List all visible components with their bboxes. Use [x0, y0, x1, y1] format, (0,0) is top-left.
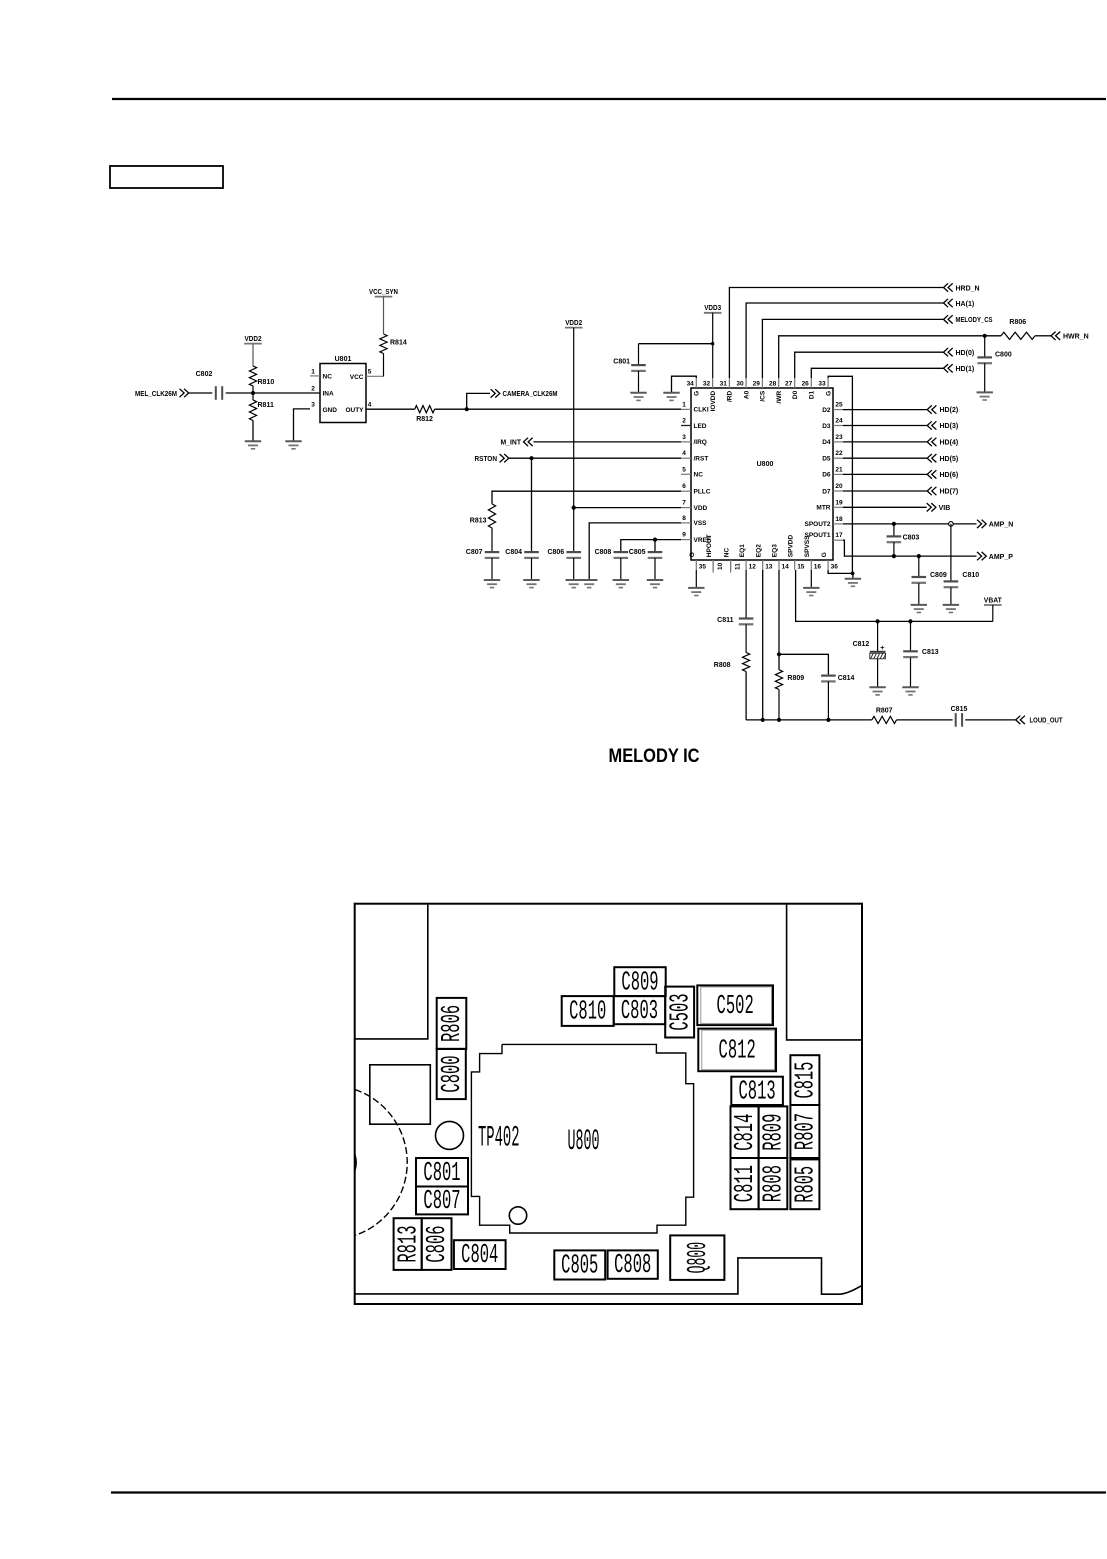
capacitor C800: [977, 336, 1011, 392]
svg-text:R807: R807: [876, 707, 893, 714]
ground: [977, 392, 993, 400]
net HD(5): [843, 454, 958, 463]
svg-text:6: 6: [682, 483, 686, 490]
svg-text:EQ1: EQ1: [739, 544, 746, 557]
svg-text:SPOUT2: SPOUT2: [804, 521, 830, 528]
svg-text:SPVDD: SPVDD: [787, 534, 794, 557]
svg-text:C800: C800: [438, 1055, 468, 1092]
svg-text:VIB: VIB: [939, 505, 951, 512]
svg-text:C813: C813: [922, 649, 939, 656]
wire pin33 G loop: [828, 376, 852, 573]
svg-text:MELODY IC: MELODY IC: [609, 745, 700, 767]
svg-text:C807: C807: [423, 1187, 460, 1217]
svg-text:RSTON: RSTON: [475, 456, 498, 463]
svg-text:13: 13: [765, 564, 773, 571]
melody IC U800: [691, 388, 833, 560]
svg-text:D0: D0: [792, 390, 799, 399]
svg-text:VBAT: VBAT: [984, 597, 1003, 604]
svg-text:VCC: VCC: [350, 374, 364, 381]
svg-text:R812: R812: [416, 416, 433, 423]
svg-text:LED: LED: [694, 423, 707, 430]
U800 right pins: [804, 402, 843, 541]
ground: [245, 441, 261, 449]
header box: [110, 166, 223, 188]
svg-text:15: 15: [797, 564, 805, 571]
wire SPVDD / VBAT rail: [796, 570, 993, 624]
svg-text:34: 34: [687, 380, 695, 387]
svg-text:C802: C802: [196, 371, 213, 378]
PCB layout frame: [355, 904, 862, 1304]
capacitor C809: [912, 556, 947, 604]
net MEL_CLK26M: [135, 389, 189, 398]
unlabeled pad: [370, 1065, 431, 1124]
svg-text:TP402: TP402: [478, 1121, 520, 1155]
wire RSTON to C804: [531, 458, 533, 552]
svg-text:14: 14: [782, 564, 790, 571]
svg-text:INA: INA: [323, 391, 335, 398]
svg-text:VDD2: VDD2: [245, 336, 262, 343]
net RSTON: [475, 454, 682, 463]
PCB part C801: [416, 1158, 468, 1189]
svg-text:D1: D1: [809, 390, 816, 399]
PCB part C807: [416, 1187, 468, 1218]
svg-text:/CS: /CS: [760, 390, 767, 402]
svg-text:3: 3: [311, 402, 315, 409]
capacitor C813: [903, 621, 939, 687]
PCB part C806: [422, 1218, 454, 1270]
test point circle: [436, 1121, 464, 1149]
svg-text:C803: C803: [621, 997, 658, 1027]
ground: [845, 579, 861, 587]
svg-text:7: 7: [682, 500, 686, 507]
svg-text:2: 2: [311, 385, 315, 392]
PCB part C810: [562, 996, 614, 1028]
PCB part C814: [731, 1106, 762, 1158]
PCB part Q800: [670, 1235, 724, 1280]
svg-text:26: 26: [802, 380, 810, 387]
svg-text:9: 9: [682, 532, 686, 539]
power flag VBAT: [984, 597, 1003, 621]
svg-text:4: 4: [682, 450, 686, 457]
wire VDD pin7: [572, 506, 681, 510]
svg-text:HD(2): HD(2): [940, 407, 959, 414]
svg-text:HD(4): HD(4): [940, 440, 959, 447]
net AMP_N: [843, 520, 1013, 529]
svg-text:C804: C804: [461, 1241, 498, 1271]
svg-text:HD(3): HD(3): [940, 423, 959, 430]
svg-text:MEL_CLK26M: MEL_CLK26M: [135, 391, 177, 398]
svg-text:D4: D4: [822, 439, 831, 446]
PCB board edge bottom: [355, 1258, 861, 1294]
wire: [897, 719, 953, 721]
svg-text:R808: R808: [760, 1165, 790, 1202]
capacitor C811: [717, 570, 753, 624]
capacitor C804: [505, 549, 539, 580]
svg-text:C806: C806: [423, 1225, 453, 1262]
ground: [613, 580, 629, 588]
svg-text:G: G: [821, 552, 828, 557]
wire VREF pin9: [621, 538, 681, 553]
svg-text:/IRQ: /IRQ: [694, 439, 707, 446]
resistor R812: [415, 406, 435, 423]
svg-text:19: 19: [835, 499, 843, 506]
wire: [745, 672, 747, 720]
svg-text:C809: C809: [930, 572, 947, 579]
wire pin13: [761, 570, 765, 722]
net AMP_P: [843, 540, 1013, 561]
svg-text:HD(7): HD(7): [940, 489, 959, 496]
net LOUD_OUT: [965, 716, 1063, 725]
svg-text:D3: D3: [822, 423, 831, 430]
svg-text:5: 5: [368, 369, 372, 376]
svg-text:HPOUT: HPOUT: [706, 534, 713, 557]
svg-text:R806: R806: [438, 1005, 468, 1042]
PCB part C503: [665, 987, 696, 1038]
svg-text:C811: C811: [717, 617, 733, 624]
svg-text:R807: R807: [792, 1113, 822, 1150]
resistor R806: [1001, 319, 1035, 340]
net HWR_N: [1035, 332, 1089, 341]
svg-text:25: 25: [835, 402, 843, 409]
svg-text:C812: C812: [719, 1037, 756, 1067]
capacitor C803: [887, 524, 920, 556]
svg-text:CAMERA_CLK26M: CAMERA_CLK26M: [503, 391, 558, 398]
capacitor C814: [779, 654, 855, 722]
U800 bottom pins: [689, 534, 838, 572]
svg-text:36: 36: [831, 564, 839, 571]
svg-text:20: 20: [835, 483, 843, 490]
wire pin34 to ground: [672, 376, 697, 392]
net MELODY_CS: [762, 315, 992, 378]
svg-text:GND: GND: [323, 407, 338, 414]
page bottom rule: [111, 1491, 1106, 1493]
ground: [943, 605, 959, 613]
svg-text:EQ2: EQ2: [755, 544, 762, 557]
PCB part C815: [790, 1055, 821, 1105]
capacitor C801: [613, 344, 646, 393]
svg-text:R810: R810: [258, 379, 275, 386]
resistor R813: [470, 504, 496, 552]
net VIB: [843, 503, 950, 512]
PCB part C800: [437, 1049, 468, 1099]
svg-text:VSS: VSS: [694, 520, 708, 527]
wire: [189, 392, 212, 394]
capacitor C808: [595, 549, 629, 580]
capacitor C806: [547, 549, 581, 580]
wire U801 GND: [294, 409, 311, 441]
svg-text:31: 31: [720, 380, 728, 387]
svg-text:C810: C810: [569, 998, 606, 1028]
svg-text:12: 12: [749, 564, 757, 571]
svg-text:D7: D7: [822, 488, 831, 495]
svg-text:HWR_N: HWR_N: [1063, 334, 1089, 341]
wire OUTY: [366, 408, 415, 410]
svg-text:NC: NC: [723, 548, 730, 558]
svg-text:NC: NC: [694, 472, 704, 479]
ground: [285, 441, 301, 449]
PCB small arc: [355, 1155, 356, 1171]
svg-text:R811: R811: [258, 402, 274, 409]
svg-text:R806: R806: [1009, 319, 1026, 326]
svg-text:R813: R813: [470, 518, 487, 525]
net HD(1): [811, 364, 974, 378]
svg-text:C808: C808: [595, 549, 612, 556]
svg-text:R813: R813: [394, 1225, 424, 1262]
svg-text:G: G: [689, 552, 696, 557]
wire: [226, 391, 320, 395]
PCB part C804: [454, 1240, 506, 1271]
svg-text:30: 30: [736, 380, 744, 387]
svg-text:C812: C812: [853, 641, 870, 648]
PCB part R809: [759, 1106, 790, 1158]
svg-text:R808: R808: [714, 662, 731, 669]
svg-text:C814: C814: [731, 1114, 761, 1151]
capacitor C805: [629, 549, 663, 580]
svg-text:28: 28: [769, 380, 777, 387]
svg-text:VCC_SYN: VCC_SYN: [369, 289, 398, 296]
wire VSS pin8: [589, 523, 681, 580]
svg-text:HRD_N: HRD_N: [956, 285, 980, 292]
svg-text:/WR: /WR: [776, 390, 783, 403]
ground pin16: [803, 570, 819, 596]
svg-text:IOVDD: IOVDD: [710, 391, 717, 412]
svg-text:C502: C502: [717, 992, 754, 1022]
PCB part C809: [614, 967, 665, 998]
PCB arc (speaker outline): [355, 1090, 407, 1236]
svg-text:HA(1): HA(1): [956, 301, 975, 308]
svg-text:2: 2: [682, 418, 686, 425]
PCB part C812: [698, 1029, 776, 1072]
wire pin14 EQ3: [777, 570, 781, 670]
svg-text:LOUD_OUT: LOUD_OUT: [1030, 718, 1064, 725]
power flag VCC_SYN: [369, 289, 398, 334]
svg-text:11: 11: [734, 563, 741, 570]
PCB part C813: [731, 1077, 783, 1108]
svg-text:HD(5): HD(5): [940, 456, 959, 463]
resistor R810: [249, 366, 274, 393]
svg-text:C811: C811: [731, 1165, 761, 1202]
ground pin35: [688, 570, 704, 596]
svg-text:D5: D5: [822, 456, 831, 463]
PCB inner region line right: [787, 904, 862, 1040]
svg-text:C805: C805: [561, 1252, 598, 1282]
svg-text:C804: C804: [505, 549, 522, 556]
svg-text:Q800: Q800: [684, 1242, 714, 1274]
net HA(1): [746, 299, 974, 378]
svg-text:24: 24: [835, 418, 843, 425]
svg-text:C800: C800: [995, 351, 1012, 358]
svg-text:VDD2: VDD2: [565, 320, 582, 327]
svg-text:16: 16: [814, 564, 822, 571]
svg-text:PLLC: PLLC: [694, 489, 711, 496]
svg-text:U800: U800: [757, 461, 774, 468]
PCB part R805: [790, 1159, 821, 1209]
svg-text:22: 22: [835, 450, 843, 457]
wire bottom rail: [746, 719, 872, 721]
resistor R814: [380, 334, 407, 376]
svg-text:U800: U800: [568, 1125, 600, 1159]
svg-text:C801: C801: [423, 1159, 460, 1189]
svg-text:M_INT: M_INT: [501, 440, 522, 447]
svg-text:AMP_N: AMP_N: [989, 522, 1014, 529]
svg-text:18: 18: [835, 516, 843, 523]
svg-text:1: 1: [311, 369, 315, 376]
svg-text:SPVSS: SPVSS: [804, 535, 811, 557]
power flag VDD2: [244, 336, 262, 366]
svg-text:17: 17: [835, 532, 843, 539]
svg-text:C805: C805: [629, 549, 646, 556]
PCB part R813: [394, 1218, 425, 1270]
svg-text:OUTY: OUTY: [345, 407, 364, 414]
wire to U800 CLKI: [435, 407, 681, 411]
capacitor C812 (polarized): [853, 621, 886, 687]
svg-text:10: 10: [717, 562, 724, 570]
wire C805 top: [654, 540, 656, 553]
svg-text:8: 8: [682, 515, 686, 522]
power flag VDD2: [565, 320, 583, 552]
svg-text:1: 1: [682, 401, 686, 408]
resistor R811: [249, 393, 274, 421]
via circle: [509, 1207, 526, 1224]
svg-text:27: 27: [785, 380, 793, 387]
svg-text:G: G: [825, 391, 832, 396]
net HD(4): [843, 438, 958, 447]
svg-text:HD(0): HD(0): [956, 350, 975, 357]
wire PLLC: [492, 491, 681, 504]
resistor R809: [775, 670, 804, 722]
net HWR_N wire: [779, 334, 1001, 378]
ground: [902, 687, 918, 695]
svg-text:C810: C810: [962, 572, 979, 579]
net HD(3): [843, 421, 958, 430]
svg-text:AMP_P: AMP_P: [989, 554, 1013, 561]
op-amp U801 (clock buffer): [310, 356, 384, 423]
resistor R807: [872, 707, 897, 723]
ground: [663, 393, 679, 401]
svg-text:/RD: /RD: [727, 391, 734, 403]
svg-text:C813: C813: [739, 1077, 776, 1107]
wire to C801: [639, 343, 713, 345]
PCB part R807: [790, 1105, 821, 1158]
svg-text:C807: C807: [466, 549, 483, 556]
net HD(2): [843, 405, 958, 414]
svg-text:D2: D2: [822, 407, 831, 414]
svg-text:R805: R805: [792, 1166, 822, 1203]
svg-text:/RST: /RST: [694, 456, 709, 463]
svg-text:C503: C503: [666, 993, 696, 1030]
svg-text:35: 35: [699, 564, 707, 571]
svg-text:R809: R809: [787, 675, 804, 682]
svg-text:C809: C809: [621, 968, 658, 998]
PCB part C811: [731, 1158, 762, 1209]
svg-text:R809: R809: [760, 1114, 790, 1151]
capacitor C815: [951, 706, 968, 727]
capacitor C810: [944, 524, 980, 605]
IC footprint U800 outline: [471, 1044, 693, 1233]
ground: [484, 580, 500, 588]
ground VSS: [581, 580, 597, 588]
ground: [523, 580, 539, 588]
svg-text:EQ3: EQ3: [772, 544, 779, 557]
U800 top pins: [687, 378, 833, 411]
svg-text:33: 33: [818, 380, 826, 387]
wire pin36 G: [828, 570, 854, 578]
net HD(7): [843, 487, 958, 496]
ground: [566, 580, 582, 588]
svg-text:C806: C806: [547, 549, 564, 556]
svg-text:HD(1): HD(1): [956, 366, 975, 373]
U800 left pins: [681, 401, 711, 544]
ground: [869, 687, 885, 695]
svg-text:U801: U801: [335, 356, 352, 363]
svg-text:R814: R814: [390, 340, 407, 347]
net HD(0): [795, 348, 974, 378]
page top rule: [112, 98, 1106, 100]
power flag VDD3: [704, 305, 722, 378]
net HD(6): [843, 470, 958, 479]
svg-text:4: 4: [368, 402, 372, 409]
svg-text:VDD: VDD: [694, 505, 708, 512]
svg-text:VDD3: VDD3: [704, 305, 721, 312]
svg-text:CLKI: CLKI: [694, 407, 709, 414]
resistor R808: [743, 624, 750, 671]
svg-text:29: 29: [753, 380, 761, 387]
PCB part C502: [697, 985, 773, 1025]
svg-text:5: 5: [682, 466, 686, 473]
svg-text:HD(6): HD(6): [940, 472, 959, 479]
net M_INT: [501, 438, 682, 447]
ground: [647, 580, 663, 588]
svg-text:NC: NC: [323, 374, 333, 381]
svg-text:C803: C803: [903, 534, 920, 541]
svg-text:A0: A0: [743, 390, 750, 399]
PCB part C805: [554, 1250, 605, 1281]
PCB part R808: [759, 1158, 790, 1209]
PCB inner region line left: [355, 904, 428, 1039]
svg-text:32: 32: [703, 380, 711, 387]
capacitor C802: [196, 371, 223, 400]
svg-text:C815: C815: [792, 1062, 822, 1099]
svg-text:C815: C815: [951, 706, 968, 713]
PCB part C803: [614, 996, 666, 1027]
svg-text:D6: D6: [822, 472, 831, 479]
ground: [911, 605, 927, 613]
net HRD_N: [729, 283, 979, 378]
svg-text:23: 23: [835, 434, 843, 441]
svg-text:MTR: MTR: [816, 505, 830, 512]
net CAMERA_CLK26M: [467, 389, 558, 409]
svg-text:C808: C808: [614, 1251, 651, 1281]
svg-text:G: G: [694, 391, 701, 396]
svg-text:C801: C801: [613, 359, 630, 366]
capacitor C807: [466, 549, 500, 580]
svg-text:C814: C814: [838, 675, 855, 682]
PCB part R806: [437, 998, 468, 1049]
ground: [630, 393, 646, 401]
PCB part C808: [608, 1250, 658, 1281]
wire: [252, 421, 254, 442]
svg-text:MELODY_CS: MELODY_CS: [956, 317, 993, 324]
svg-text:21: 21: [835, 466, 843, 473]
svg-text:3: 3: [682, 434, 686, 441]
